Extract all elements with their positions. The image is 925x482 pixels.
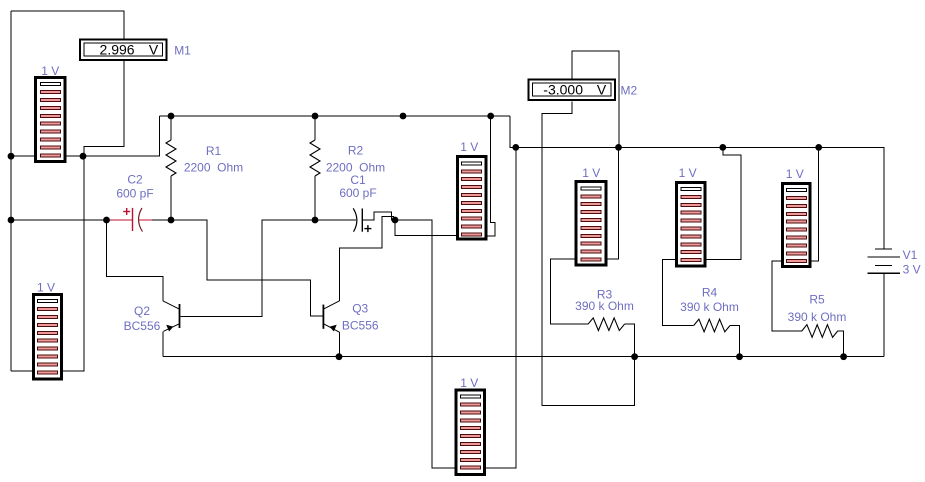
wire M2 plus loop [572,51,619,147]
wire M1 bottom lead [84,61,124,156]
svg-text:1 V: 1 V [37,281,55,295]
svg-text:1 V: 1 V [460,376,478,390]
junction left bus C2 [8,217,15,224]
label R2 [326,144,385,175]
battery V1 [867,249,900,273]
wire lamp X3 left to R3 [550,259,588,324]
label C1 [339,173,376,200]
capacitor C1 [353,208,371,232]
transistor Q3 [323,305,336,332]
junction rail-R2 [312,113,319,120]
label R5 [788,293,847,324]
wire Q3 emitter diagonal [323,324,339,333]
svg-text:1 V: 1 V [786,167,804,181]
label Q3 [342,302,379,333]
label R3 [575,288,634,314]
svg-text:600 pF: 600 pF [116,186,153,200]
svg-text:2200 Ohm: 2200 Ohm [184,161,243,175]
svg-text:V1: V1 [903,248,918,262]
wire left vertical bus [10,11,12,371]
lamp X6 (1 V) [457,157,486,239]
lamp X2 (1 V) [34,295,62,379]
junction R1 bottom [168,217,175,224]
resistor R3 [588,318,625,331]
wire C2 line left [11,219,110,221]
wire R2 to Q2 base [181,220,316,317]
svg-text:V: V [149,42,159,58]
lamp X5 (1 V) [782,183,810,266]
wire lamp X5 right riser [812,147,819,261]
wire Q2 emitter diagonal [164,324,180,332]
wire top rail (Vcc) [160,115,511,117]
svg-text:1 V: 1 V [41,64,59,78]
wire R2 top lead [314,116,316,140]
wire lamp X2 right terminal riser [63,156,84,371]
junction node A [80,153,87,160]
wire lamp X7 right riser [486,147,516,467]
wire R2 node to C1 [315,219,356,221]
svg-text:600 pF: 600 pF [339,186,376,200]
wire lamp X3 right riser [607,147,618,259]
svg-text:1 V: 1 V [679,166,697,180]
svg-text:1 V: 1 V [582,166,600,180]
svg-text:390 k Ohm: 390 k Ohm [680,300,739,314]
label C2 [116,173,153,201]
svg-text:1 V: 1 V [460,140,478,154]
junction R2 bottom [312,217,319,224]
transistor Q2 [166,304,179,332]
junction Q3 emitter rail [336,353,343,360]
wire M2 minus path [542,101,635,405]
wire lamp X2 left terminal [11,370,32,372]
resistor R5 [802,325,838,338]
wire Q3 collector diagonal [324,301,340,309]
label V1 [903,248,921,277]
svg-text:2.996: 2.996 [100,42,135,58]
wire lamp X1 left terminal [11,155,34,157]
svg-text:R1: R1 [206,144,222,158]
wire R2 bottom lead [314,176,316,220]
wire Q2 collector path [107,220,164,301]
junction R5 rail [840,353,847,360]
wire R1 bottom lead [170,176,172,220]
label R1 [184,144,243,175]
label Q2 [124,304,161,333]
junction rail2-X5 [815,144,822,151]
svg-text:M2: M2 [621,84,638,98]
svg-text:3 V: 3 V [903,263,921,277]
wire C2 line right [152,219,171,221]
resistor R4 [694,319,730,332]
wire top-left loop [11,11,124,38]
svg-text:V: V [597,82,607,98]
wire lamp X5 left to R5 [772,261,802,331]
lamp X1 (1 V) [36,78,66,162]
wire C2 red lead right [139,219,152,221]
junction Q2 collector node [103,217,110,224]
junction rail mid [400,113,407,120]
wire C1 output step [362,212,395,220]
svg-text:Q2: Q2 [134,304,150,318]
lamp X3 (1 V) [576,182,606,265]
junction rail-R1 [168,113,175,120]
junction rail2-X3 [615,144,622,151]
svg-text:R5: R5 [809,293,825,307]
svg-text:C1: C1 [350,173,366,187]
svg-text:M1: M1 [174,44,191,58]
wire node B to bottom lamp [395,220,455,468]
wire Q2 emitter lead [162,331,164,356]
voltmeter M2 [529,79,638,100]
svg-text:Q3: Q3 [352,302,368,316]
lamp X4 (1 V) [676,182,705,266]
svg-text:BC556: BC556 [124,319,161,333]
wire node A to rail riser [83,116,160,156]
wire node B to lamp X6 left [395,220,456,236]
capacitor C2 [123,208,142,232]
wire Q2 collector diagonal [163,301,180,309]
wire lamp X4 left to R4 [663,260,694,326]
wire R1 top lead [170,116,172,140]
label R4 [680,286,739,315]
wire battery bottom lead [883,273,885,357]
wire Q3 collector path [340,217,395,301]
svg-text:-3.000: -3.000 [543,82,583,98]
junction C1 output node B [392,217,399,224]
wire R3 right lead [625,324,635,357]
junction R3 rail [631,353,638,360]
wire lamp X6 right terminal step [488,116,496,236]
voltmeter M1 [80,39,191,60]
junction rail2-X7 [512,144,519,151]
svg-text:390 k Ohm: 390 k Ohm [575,299,634,313]
junction left bus X1 [8,153,15,160]
wire lamp X1 right terminal [67,155,84,157]
junction R4 rail [736,353,743,360]
svg-text:R2: R2 [348,144,364,158]
resistor R2 [310,140,320,176]
wire Q3 emitter lead [338,332,340,357]
wire lamp X4 right riser [707,147,741,259]
svg-text:C2: C2 [127,173,143,187]
lamp X7 (1 V) [456,390,485,475]
wire C2 red lead left [110,219,133,221]
svg-text:R4: R4 [702,286,718,300]
svg-text:BC556: BC556 [342,319,379,333]
resistor R1 [166,140,176,176]
junction rail-X6 [487,113,494,120]
wire R4 right lead [730,326,740,357]
wire emitter/bottom rail [163,356,884,358]
wire R1 node to Q3 base [171,220,323,316]
wire R5 right lead [838,331,844,357]
svg-text:390 k Ohm: 390 k Ohm [788,310,847,324]
wire rail step down [510,116,884,249]
junction rail2-X4 [719,144,726,151]
